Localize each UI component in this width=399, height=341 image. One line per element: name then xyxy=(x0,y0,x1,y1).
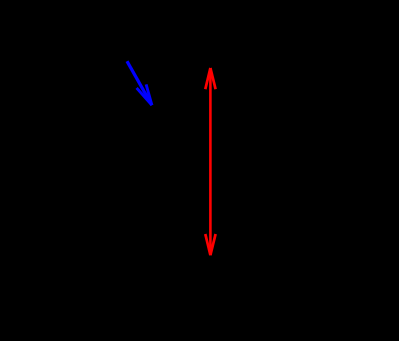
blue vector arrow (down-right, with V head) xyxy=(127,61,152,105)
red vertical double-headed arrow xyxy=(205,68,215,255)
